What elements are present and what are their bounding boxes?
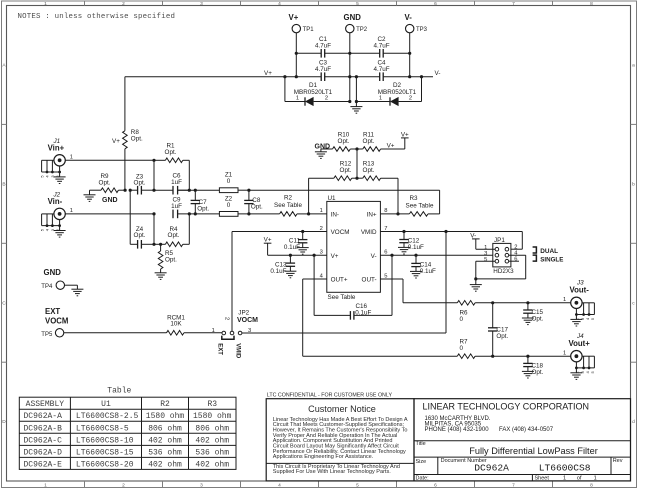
svg-text:d: d [632, 419, 635, 425]
wire TP3 to V- rail [408, 33, 411, 78]
wire Vin+ node down [152, 160, 155, 191]
svg-text:8: 8 [590, 483, 593, 489]
wire TP1 to V+ rail [295, 33, 298, 78]
svg-text:See Table: See Table [328, 294, 356, 301]
svg-text:C: C [2, 300, 6, 306]
svg-text:V-: V- [470, 232, 476, 239]
svg-text:VOCM: VOCM [45, 317, 68, 326]
wire U1 pin 1 stub [309, 213, 327, 215]
wire JP1 pin 6 stub [509, 260, 519, 262]
svg-text:R3: R3 [409, 195, 418, 202]
svg-text:6: 6 [434, 483, 437, 489]
svg-text:1: 1 [563, 351, 566, 357]
svg-text:2: 2 [325, 96, 328, 102]
connector J1 Vin+ [39, 138, 65, 183]
svg-text:TP2: TP2 [356, 27, 368, 33]
svg-text:1: 1 [70, 155, 73, 161]
svg-text:5: 5 [384, 273, 387, 279]
svg-text:VOCM: VOCM [331, 229, 350, 236]
diode D2 MBR0520LT1 [356, 82, 421, 106]
svg-text:6: 6 [384, 250, 387, 256]
ground symbol power section [350, 102, 362, 114]
wire R12 down to IN- node [308, 178, 310, 214]
connector J4 Vout+ [563, 333, 595, 380]
svg-text:LT6600CS8-10: LT6600CS8-10 [76, 436, 134, 445]
capacitor C17 Opt [488, 301, 509, 358]
svg-text:Opt.: Opt. [131, 136, 143, 143]
svg-text:1: 1 [320, 208, 323, 214]
svg-text:Opt.: Opt. [197, 205, 209, 212]
svg-text:5: 5 [356, 483, 359, 489]
svg-text:PHONE (408) 432-1900: PHONE (408) 432-1900 [425, 427, 490, 433]
svg-text:ASSEMBLY: ASSEMBLY [26, 400, 65, 409]
svg-text:V+: V+ [289, 13, 299, 22]
wire JP1 pin 5 to ground [474, 261, 495, 280]
svg-text:V+: V+ [264, 237, 272, 244]
capacitor C4 4.7uF [373, 59, 389, 81]
svg-text:D1: D1 [309, 82, 318, 89]
svg-text:2: 2 [223, 317, 229, 320]
svg-text:LTC CONFIDENTIAL - FOR CUSTOME: LTC CONFIDENTIAL - FOR CUSTOMER USE ONLY [267, 393, 393, 399]
test point TP1 (V+) [289, 13, 315, 33]
wire VMID pin 7 line to JP1 pin 2 [380, 232, 522, 250]
svg-text:4.7uF: 4.7uF [315, 43, 331, 50]
svg-text:GND: GND [44, 268, 62, 277]
resistor R2 See Table [238, 195, 310, 217]
svg-text:OUT+: OUT+ [331, 277, 348, 284]
power symbol V+ at pin 3 [264, 242, 272, 244]
svg-text:DC962A-C: DC962A-C [24, 436, 63, 445]
resistor R11 Opt [350, 132, 405, 152]
svg-text:U1: U1 [101, 400, 111, 409]
wire J2 to node, pin 1 [65, 208, 155, 215]
capacitor C6 1uF [154, 172, 191, 194]
svg-text:NOTES : unless otherwise speci: NOTES : unless otherwise specified [18, 13, 176, 21]
svg-text:TP5: TP5 [41, 332, 53, 338]
svg-text:TP4: TP4 [41, 284, 53, 290]
svg-text:Applications Engineering For A: Applications Engineering For Assistance. [273, 454, 374, 460]
svg-text:Table: Table [107, 387, 131, 396]
svg-text:Date:: Date: [416, 476, 430, 482]
svg-text:VMID: VMID [235, 343, 241, 359]
svg-text:LT6600CS8-20: LT6600CS8-20 [76, 460, 134, 469]
svg-text:V+: V+ [331, 253, 339, 260]
svg-text:7: 7 [384, 226, 387, 232]
svg-text:402 ohm: 402 ohm [195, 460, 229, 469]
capacitor C14 0.1uF with ground [410, 254, 436, 278]
svg-text:GND: GND [315, 144, 331, 151]
svg-text:Opt.: Opt. [363, 167, 375, 174]
svg-text:Opt.: Opt. [532, 369, 544, 376]
capacitor C16 0.1uF between V+ and V- [313, 254, 394, 320]
svg-text:5: 5 [484, 257, 487, 263]
jumper Z2 0 ohm [178, 196, 238, 217]
svg-text:2: 2 [122, 483, 125, 489]
svg-text:Opt.: Opt. [134, 232, 146, 239]
svg-text:a: a [632, 64, 635, 69]
svg-text:Vout-: Vout- [570, 285, 590, 294]
svg-text:806 ohm: 806 ohm [148, 424, 182, 433]
svg-text:536 ohm: 536 ohm [148, 448, 182, 457]
wire IN+ upper row across to R3 [238, 190, 440, 214]
capacitor C3 4.7uF [315, 59, 331, 81]
svg-text:Fully Differential LowPass Fil: Fully Differential LowPass Filter [469, 446, 598, 456]
svg-text:0: 0 [460, 316, 464, 323]
svg-text:3: 3 [320, 250, 323, 256]
wire V- rail to diode row [421, 77, 423, 102]
capacitor C9 1uF [171, 196, 191, 218]
svg-text:b: b [632, 181, 635, 187]
svg-text:of: of [577, 476, 582, 482]
capacitor C12 0.1uF with ground [398, 230, 424, 254]
svg-text:0.1uF: 0.1uF [408, 244, 424, 251]
svg-text:LT6600CS8-5: LT6600CS8-5 [76, 424, 129, 433]
svg-text:0: 0 [460, 345, 464, 352]
capacitor C13 0.1uF with ground [270, 254, 296, 278]
svg-text:V+: V+ [112, 138, 120, 145]
capacitor C7 Opt [191, 189, 210, 216]
bracket SINGLE [533, 255, 537, 261]
svg-text:Opt.: Opt. [99, 180, 111, 187]
connector J2 Vin- [39, 192, 65, 237]
diode D1 MBR0520LT1 [285, 82, 350, 106]
capacitor C2 4.7uF [350, 36, 410, 58]
svg-text:8: 8 [590, 1, 593, 7]
svg-text:Rev: Rev [613, 458, 623, 464]
svg-text:DC962A-B: DC962A-B [24, 424, 63, 433]
svg-text:1: 1 [70, 208, 73, 214]
svg-text:D2: D2 [393, 82, 402, 89]
svg-text:Opt.: Opt. [496, 333, 508, 340]
svg-text:8: 8 [384, 208, 387, 214]
node bias junction [124, 189, 127, 192]
svg-text:5: 5 [356, 1, 359, 7]
bracket JP2 position [222, 336, 234, 340]
svg-text:OUT-: OUT- [362, 277, 377, 284]
resistor R12 Opt [309, 161, 357, 181]
svg-text:3: 3 [200, 483, 203, 489]
svg-text:DC962A-D: DC962A-D [24, 448, 63, 457]
svg-text:EXT: EXT [45, 307, 60, 316]
svg-text:1: 1 [563, 476, 566, 482]
svg-text:1: 1 [594, 476, 597, 482]
svg-text:2: 2 [409, 96, 412, 102]
capacitor Z4 Opt [134, 226, 154, 249]
wire GND mid rail [325, 75, 380, 78]
wire V+ rail to diode row [284, 77, 286, 102]
wire bias to Z4 row [129, 190, 131, 244]
svg-text:Opt.: Opt. [134, 180, 146, 187]
wire TP2 down to diode row [348, 33, 351, 103]
wire bias node to R12/R13 [355, 149, 358, 180]
svg-text:Opt.: Opt. [165, 256, 177, 263]
svg-text:Opt.: Opt. [340, 167, 352, 174]
svg-text:0.1uF: 0.1uF [270, 268, 286, 275]
svg-text:4.7uF: 4.7uF [373, 43, 389, 50]
svg-text:Opt.: Opt. [165, 149, 177, 156]
jumper JP2 VOCM [212, 309, 259, 335]
wire V- rail [383, 70, 440, 78]
svg-text:LT6600CS8-15: LT6600CS8-15 [76, 448, 134, 457]
wire JP2 pin 3 to VMID [242, 332, 446, 334]
svg-text:DC962A-E: DC962A-E [24, 460, 63, 469]
svg-text:0: 0 [227, 178, 231, 185]
svg-text:1: 1 [212, 328, 215, 334]
svg-text:Opt.: Opt. [363, 138, 375, 145]
resistor R10 Opt with ground [315, 132, 351, 159]
svg-text:DC962A: DC962A [474, 463, 509, 474]
wire JP1 pin 4 to ground rail [476, 255, 526, 279]
svg-text:Opt.: Opt. [251, 203, 263, 210]
svg-text:JP1: JP1 [494, 237, 505, 244]
connector J3 Vout- [563, 280, 595, 327]
svg-text:1: 1 [44, 483, 47, 489]
svg-text:D: D [2, 419, 6, 425]
resistor R6 0 [457, 301, 570, 324]
capacitor C18 Opt with ground [522, 355, 544, 378]
svg-text:1580 ohm: 1580 ohm [193, 412, 232, 421]
svg-text:V+: V+ [264, 70, 272, 77]
svg-text:IN-: IN- [331, 211, 339, 218]
svg-text:LT6600CS8-2.5: LT6600CS8-2.5 [76, 412, 139, 421]
title block company box [414, 399, 631, 482]
jumper Z1 0 ohm [219, 172, 238, 193]
svg-text:Title: Title [416, 441, 426, 447]
svg-text:4: 4 [278, 483, 281, 489]
svg-text:806 ohm: 806 ohm [195, 424, 229, 433]
svg-text:U1: U1 [328, 195, 337, 202]
bracket DUAL [533, 247, 537, 253]
resistor R9 Opt with ground [84, 173, 126, 204]
svg-text:Opt.: Opt. [338, 138, 350, 145]
svg-text:VOCM: VOCM [237, 317, 258, 324]
table of assembly values [19, 387, 236, 470]
svg-text:6: 6 [434, 1, 437, 7]
svg-text:TP1: TP1 [303, 27, 315, 33]
jumper header JP1 HD2X3 [484, 237, 518, 275]
svg-text:See Table: See Table [274, 202, 302, 209]
svg-text:3: 3 [200, 1, 203, 7]
svg-text:0.1uF: 0.1uF [420, 268, 436, 275]
wire OUT- pin 5 route [380, 279, 457, 303]
test point TP3 (V-) [405, 13, 428, 33]
resistor R5 Opt with ground [155, 243, 178, 280]
resistor R3 See Table [406, 195, 440, 216]
capacitor C15 Opt with ground [522, 301, 544, 324]
power symbol V+ at R11 [387, 131, 409, 149]
wire U1 pin 8 stub [380, 213, 409, 215]
svg-text:0: 0 [227, 202, 231, 209]
svg-text:VMID: VMID [361, 229, 377, 236]
wire V+ pin 3 line [268, 243, 327, 255]
svg-text:TP3: TP3 [416, 27, 428, 33]
svg-text:2: 2 [122, 1, 125, 7]
wire Vin- node down [152, 214, 155, 246]
svg-text:402 ohm: 402 ohm [148, 436, 182, 445]
wire J1 to node, pin 1 [65, 155, 155, 162]
svg-text:JP2: JP2 [238, 309, 249, 316]
wire OUT+ pin 4 route [303, 279, 458, 356]
svg-text:R2: R2 [284, 195, 293, 202]
svg-text:Opt.: Opt. [532, 315, 544, 322]
svg-text:LINEAR TECHNOLOGY CORPORATION: LINEAR TECHNOLOGY CORPORATION [423, 401, 590, 411]
svg-text:402 ohm: 402 ohm [148, 460, 182, 469]
svg-text:DC962A-A: DC962A-A [24, 412, 63, 421]
svg-text:5: 5 [590, 317, 595, 320]
svg-text:GND: GND [102, 197, 118, 204]
svg-text:A: A [2, 63, 6, 69]
svg-text:SINGLE: SINGLE [540, 256, 563, 263]
capacitor C8 Opt [244, 189, 263, 216]
svg-text:10K: 10K [170, 321, 182, 328]
resistor R4 Opt [154, 214, 189, 247]
svg-text:GND: GND [344, 13, 362, 22]
op-amp filter U1 LT6600 [320, 195, 388, 301]
svg-text:V+: V+ [387, 143, 395, 150]
test point TP5 EXT VOCM [41, 307, 68, 338]
wire upper row to Z1 [178, 189, 220, 191]
svg-text:Supplied For Use With Linear T: Supplied For Use With Linear Technology … [273, 469, 391, 475]
svg-text:V-: V- [371, 253, 377, 260]
wire ground drop with dot [355, 77, 358, 103]
svg-text:536 ohm: 536 ohm [195, 448, 229, 457]
resistor RCM1 10K [64, 314, 222, 335]
svg-text:Vin+: Vin+ [48, 144, 65, 153]
svg-text:See Table: See Table [406, 203, 434, 210]
resistor R1 Opt [154, 143, 189, 191]
svg-text:4: 4 [320, 273, 324, 279]
svg-text:Vout+: Vout+ [569, 339, 591, 348]
svg-text:Size: Size [416, 459, 427, 465]
wire VOCM pin 2 to JP2 [232, 232, 327, 332]
svg-text:V+: V+ [401, 131, 409, 138]
svg-text:1580 ohm: 1580 ohm [146, 412, 185, 421]
svg-text:EXT: EXT [217, 343, 223, 355]
svg-text:B: B [2, 181, 5, 187]
svg-text:402 ohm: 402 ohm [195, 436, 229, 445]
svg-text:1: 1 [296, 96, 299, 102]
wire V- pin 6 line to JP1 pin 3 [380, 254, 495, 256]
test point TP2 (GND) [344, 13, 368, 33]
wire VMID drop to JP2 pin 3 [444, 230, 447, 333]
wire JP1 pin 1 to V- symbol [470, 232, 495, 249]
capacitor C1 4.7uF [296, 36, 350, 58]
svg-text:IN+: IN+ [367, 211, 377, 218]
svg-text:1: 1 [44, 1, 47, 7]
svg-text:V-: V- [435, 70, 441, 77]
resistor R8 Opt [112, 77, 143, 191]
svg-text:1uF: 1uF [171, 179, 182, 186]
svg-text:V-: V- [405, 13, 413, 22]
svg-text:LT6600CS8: LT6600CS8 [539, 463, 591, 474]
svg-text:Vin-: Vin- [48, 197, 63, 206]
svg-text:5: 5 [590, 371, 595, 374]
svg-text:4.7uF: 4.7uF [373, 66, 389, 73]
svg-text:7: 7 [512, 483, 515, 489]
svg-text:1uF: 1uF [171, 203, 182, 210]
svg-text:7: 7 [512, 1, 515, 7]
svg-text:R2: R2 [160, 400, 170, 409]
svg-text:2: 2 [320, 226, 323, 232]
svg-text:DUAL: DUAL [540, 248, 558, 255]
wire V+ rail [125, 70, 321, 78]
resistor R13 Opt [357, 161, 398, 181]
ground symbol JP1 [470, 279, 482, 291]
resistor R7 0 [457, 339, 570, 359]
svg-text:4.7uF: 4.7uF [315, 66, 331, 73]
svg-text:R3: R3 [207, 400, 217, 409]
capacitor Z3 Opt [130, 173, 154, 194]
svg-text:HD2X3: HD2X3 [493, 268, 514, 275]
svg-text:Sheet: Sheet [535, 476, 550, 482]
title block customer notice [266, 399, 414, 481]
svg-text:1: 1 [379, 96, 382, 102]
svg-text:c: c [632, 301, 635, 306]
svg-text:Opt.: Opt. [168, 232, 180, 239]
wire R13 down to IN+ node [396, 178, 399, 215]
svg-text:Customer Notice: Customer Notice [308, 404, 376, 414]
test point TP4 GND [41, 268, 83, 296]
svg-text:FAX (408) 434-0507: FAX (408) 434-0507 [499, 427, 554, 433]
capacitor C11 0.1uF with ground [284, 230, 309, 254]
svg-text:1: 1 [563, 297, 566, 303]
svg-text:4: 4 [278, 1, 281, 7]
